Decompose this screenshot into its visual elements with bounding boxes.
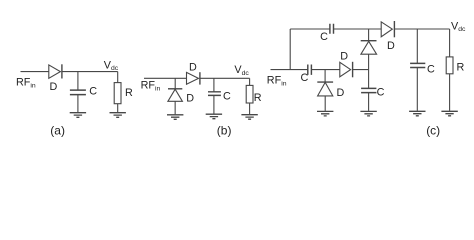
label C (a) [89, 86, 97, 98]
label R (b) [254, 92, 262, 104]
caption (c) [426, 124, 440, 138]
diode D (a) cathode bar [61, 64, 63, 78]
label C (c output) [427, 64, 435, 76]
wire corner to resistor (a) [117, 72, 119, 83]
wire top rail left (c) [290, 28, 330, 30]
svg-text:D: D [387, 40, 395, 52]
wire shunt capacitor stub (c) [368, 70, 370, 89]
ground (b, under shunt D) [167, 115, 183, 120]
label R (c) [457, 62, 465, 74]
wire shunt diode to ground (b) [174, 101, 176, 114]
svg-text:RFin: RFin [16, 76, 36, 89]
shunt diode D (c) cathode bar [317, 81, 333, 83]
top diode D (c) triangle [381, 22, 392, 37]
label RFin (b) [141, 80, 161, 93]
resistor R (a) [114, 83, 121, 104]
wire after input cap (c) [311, 69, 339, 71]
series diode D (b) cathode bar [199, 72, 201, 84]
ground (c, under output C) [409, 111, 425, 116]
shunt diode D (b) triangle [168, 89, 183, 101]
svg-text:R: R [125, 87, 133, 99]
svg-text:Vdc: Vdc [234, 64, 249, 77]
shunt diode D (c) triangle [318, 82, 333, 96]
label D (b shunt) [186, 93, 194, 105]
caption (b) [217, 123, 232, 137]
svg-text:C: C [320, 31, 328, 43]
svg-text:D: D [337, 87, 345, 99]
svg-text:C: C [427, 64, 435, 76]
svg-text:RFin: RFin [141, 80, 161, 93]
svg-text:C: C [223, 90, 231, 102]
wire capacitor stub (b) [213, 78, 215, 92]
top diode D (c) cathode bar [393, 21, 395, 37]
label C (c shunt) [377, 87, 385, 99]
wire riser to top rail (c) [289, 29, 291, 70]
ground (a, under C) [70, 113, 86, 118]
series diode D (c middle) cathode bar [352, 62, 354, 78]
wire node to vertical diode (c) [368, 54, 370, 69]
wire resistor to ground (b) [249, 103, 251, 114]
svg-text:RFin: RFin [267, 75, 287, 88]
svg-text:(a): (a) [50, 123, 65, 137]
label Vdc (b) [234, 64, 249, 77]
ground (a, under R) [110, 113, 126, 118]
svg-text:Vdc: Vdc [451, 20, 466, 33]
vertical diode D (c) triangle [361, 41, 377, 54]
wire shunt capacitor to ground (c) [368, 93, 370, 111]
label D (c top) [387, 40, 395, 52]
svg-text:C: C [89, 86, 97, 98]
ground (b, under C) [206, 114, 222, 119]
capacitor C (c shunt) plates [361, 88, 376, 92]
wire resistor to ground (a) [117, 104, 119, 113]
series diode D (b) triangle [187, 72, 199, 84]
svg-text:R: R [457, 62, 465, 74]
wire vertical diode to rail (c) [368, 29, 370, 41]
capacitor C (c output) plates [410, 63, 425, 67]
svg-text:(b): (b) [217, 123, 232, 137]
wire input (b) [144, 77, 187, 79]
label C (c input) [301, 72, 309, 84]
wire output node (b) [200, 77, 250, 79]
vertical diode D (c) cathode bar [361, 40, 377, 42]
wire shunt diode stub (c) [324, 70, 326, 83]
wire corner to resistor (b) [249, 78, 251, 85]
svg-text:C: C [377, 87, 385, 99]
svg-text:Vdc: Vdc [104, 59, 119, 72]
label RFin (c) [267, 75, 287, 88]
resistor R (c) [446, 57, 453, 74]
label RFin (a) [16, 76, 36, 89]
svg-text:D: D [50, 81, 58, 93]
wire corner to resistor (c) [449, 29, 451, 57]
label C (b) [223, 90, 231, 102]
diode D (a) triangle [49, 65, 61, 78]
label D (c shunt) [337, 87, 345, 99]
ground (c, under shunt C) [360, 111, 376, 116]
wire output capacitor stub (c) [416, 29, 418, 63]
wire capacitor to ground (a) [77, 95, 79, 113]
capacitor C (b) plates [208, 92, 221, 96]
caption (a) [50, 123, 65, 137]
wire output node (a) [62, 71, 118, 73]
svg-text:(c): (c) [426, 124, 440, 138]
svg-text:D: D [186, 93, 194, 105]
label Vdc (a) [104, 59, 119, 72]
wire capacitor stub (a) [77, 72, 79, 91]
series diode D (c middle) triangle [340, 62, 351, 77]
label Vdc (c) [451, 20, 466, 33]
label D (c middle series) [340, 51, 348, 63]
label R (a) [125, 87, 133, 99]
capacitor C (c input) plates [308, 65, 312, 75]
capacitor C (a) plates [70, 90, 86, 95]
svg-text:D: D [189, 61, 197, 73]
ground (b, under R) [241, 115, 257, 120]
wire top rail middle (c) [334, 28, 382, 30]
capacitor C (c top) plates [330, 24, 334, 34]
svg-text:D: D [340, 51, 348, 63]
wire top rail right (c) [394, 28, 449, 30]
wire resistor to ground (c) [449, 74, 451, 111]
ground (c, under R) [441, 111, 457, 116]
wire input (c) [271, 69, 308, 71]
ground (c, under shunt D) [317, 111, 333, 116]
label C (c top) [320, 31, 328, 43]
label D (a) [50, 81, 58, 93]
label D (b series) [189, 61, 197, 73]
wire capacitor to ground (b) [213, 95, 215, 113]
wire output capacitor to ground (c) [416, 68, 418, 111]
wire shunt diode to ground (c) [324, 96, 326, 111]
wire series diode to node (c) [353, 69, 369, 71]
resistor R (b) [246, 85, 253, 103]
svg-text:R: R [254, 92, 262, 104]
wire shunt diode stub (b) [174, 78, 176, 89]
wire input (a) [21, 71, 49, 73]
svg-text:C: C [301, 72, 309, 84]
shunt diode D (b) cathode bar [168, 88, 182, 90]
